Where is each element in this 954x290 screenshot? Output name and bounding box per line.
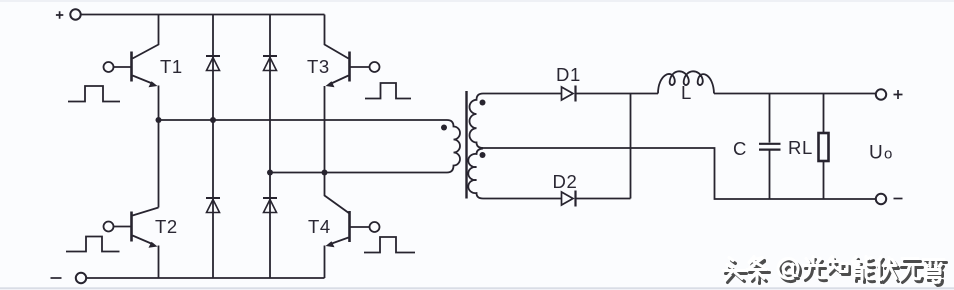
- wire upper middle rail + transformer primary winding: [159, 120, 461, 173]
- svg-text:T2: T2: [155, 216, 178, 237]
- pulse waveform at T1 base: [68, 86, 120, 102]
- wire top rail: [81, 14, 325, 16]
- svg-text:T4: T4: [308, 216, 331, 237]
- junction node T1-T2 midpoint: [156, 117, 162, 123]
- node - input minus label: [51, 277, 62, 279]
- wire left leg bottom: [158, 246, 160, 279]
- svg-text:D1: D1: [556, 64, 581, 85]
- pulse waveform at T2 base: [66, 237, 120, 252]
- resistor RL body: [819, 133, 829, 161]
- input - terminal: [76, 273, 86, 283]
- capacitor C plates: [759, 144, 781, 150]
- resistor RL leads: [823, 94, 825, 200]
- bottom edge line: [0, 287, 954, 289]
- T2 emitter arrow: [149, 242, 158, 248]
- watermark toutiao white: [723, 257, 944, 283]
- input + terminal: [70, 9, 80, 19]
- wire right leg bottom: [324, 246, 326, 279]
- diode D1: [562, 87, 574, 100]
- svg-text:o: o: [884, 146, 893, 163]
- svg-text:U: U: [869, 143, 883, 164]
- output + terminal: [876, 89, 886, 99]
- wire D2 cathode: [576, 198, 631, 200]
- svg-text:T1: T1: [160, 56, 183, 77]
- T4 emitter arrow: [326, 241, 335, 247]
- diode D2: [562, 192, 574, 205]
- inductor L: [658, 71, 714, 93]
- node + output plus label: [894, 90, 903, 99]
- wire right leg top (T3 collector): [325, 15, 349, 59]
- pulse waveform at T3 base: [365, 83, 411, 99]
- primary polarity dot: [441, 125, 447, 131]
- T1 emitter arrow: [149, 81, 158, 87]
- watermark toutiao shadow: [726, 260, 947, 286]
- svg-text:L: L: [681, 82, 692, 103]
- transformer secondary top winding + wire to D1: [469, 94, 561, 149]
- junction node diode leg 2 midpoint: [267, 170, 273, 176]
- wire D1 cathode to inductor: [576, 93, 659, 95]
- capacitor C leads: [769, 94, 771, 200]
- secondary top polarity dot: [480, 100, 486, 106]
- transformer core: [465, 91, 467, 199]
- diode across T2: [206, 197, 220, 199]
- wire right leg middle: [325, 86, 350, 214]
- T3 emitter arrow: [326, 81, 335, 87]
- svg-text:RL: RL: [788, 137, 813, 158]
- transistor T4: [348, 211, 351, 242]
- junction node T3-T4 midpoint: [322, 170, 328, 176]
- wire left leg middle: [158, 86, 160, 208]
- wire diode leg 1: [212, 15, 214, 279]
- pulse waveform at T4 base: [364, 237, 415, 253]
- transistor T1: [130, 52, 133, 82]
- diode across T4: [263, 197, 277, 199]
- svg-text:C: C: [733, 138, 747, 159]
- wire left leg top (T1 collector): [133, 15, 159, 59]
- top edge strip: [0, 0, 954, 2]
- wire inductor to + output: [714, 93, 876, 95]
- wire diode leg 2: [269, 15, 271, 279]
- wire center tap to minus output: [480, 148, 876, 199]
- svg-text:T3: T3: [307, 56, 330, 77]
- wire bottom rail: [87, 277, 325, 279]
- transistor T3: [348, 52, 351, 82]
- output - terminal: [876, 194, 886, 204]
- svg-text:D2: D2: [553, 171, 578, 192]
- secondary bottom polarity dot: [480, 152, 486, 158]
- junction node diode leg 1 midpoint: [210, 117, 216, 123]
- wire D1-D2 junction vertical: [630, 94, 632, 199]
- diode across T3: [263, 55, 277, 57]
- transformer secondary bottom winding + wire to D2: [468, 149, 561, 199]
- node - output minus label: [894, 198, 903, 200]
- transistor T2: [130, 212, 133, 242]
- node + input plus label: [56, 11, 63, 18]
- diode across T1: [206, 55, 220, 57]
